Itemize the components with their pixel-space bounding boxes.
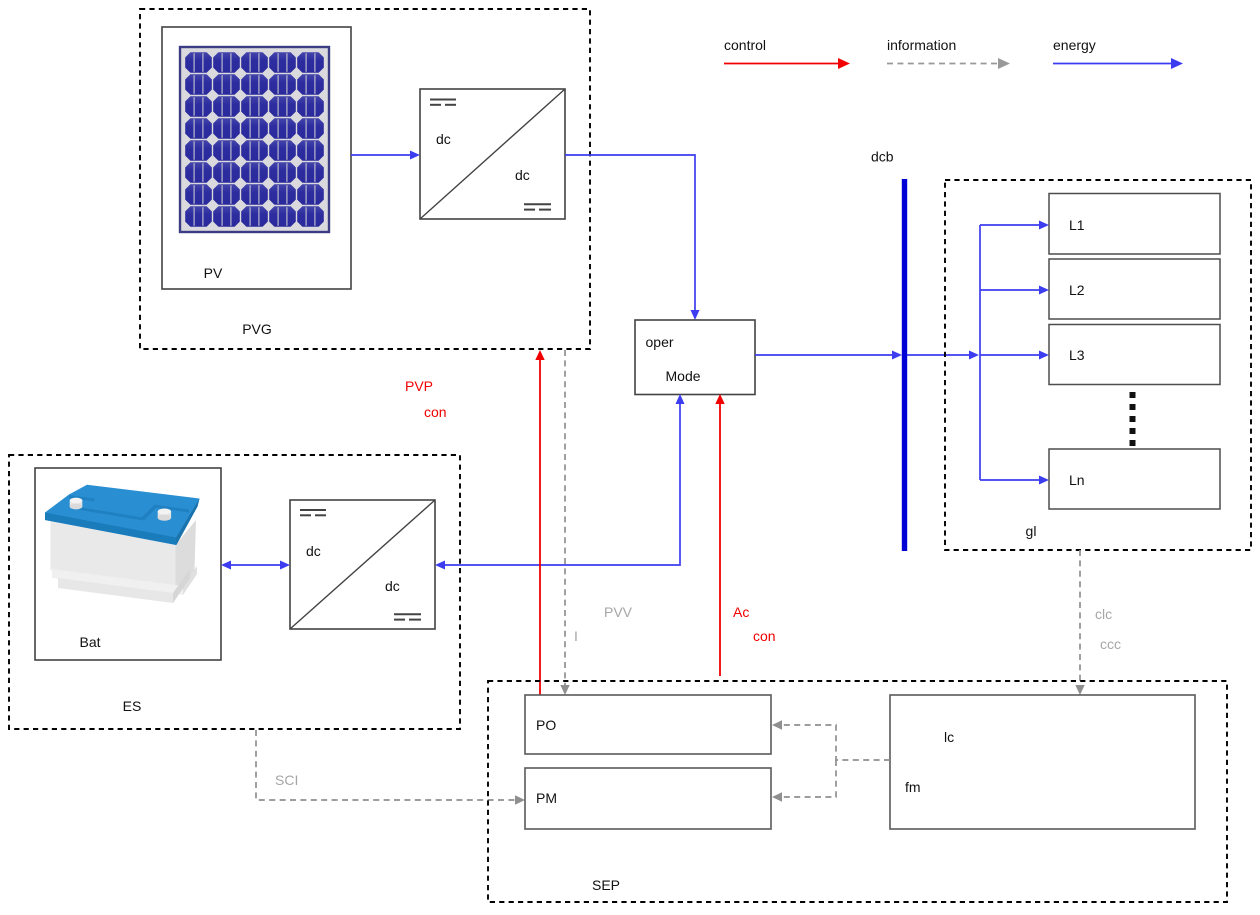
svg-text:Mode: Mode bbox=[666, 368, 701, 384]
svg-text:oper: oper bbox=[646, 334, 674, 350]
wire oper box to dcb bus (energy) bbox=[755, 354, 894, 356]
svg-text:dcb: dcb bbox=[871, 149, 894, 165]
wire branch to L2 (energy) bbox=[980, 289, 1041, 291]
battery terminal right bbox=[158, 512, 171, 518]
battery lid plateau step right bbox=[155, 505, 190, 513]
PV box bbox=[162, 27, 351, 289]
lc fm box bbox=[890, 695, 1195, 829]
svg-text:energy: energy bbox=[1053, 37, 1096, 53]
load L1 box bbox=[1049, 194, 1220, 255]
load L3 box bbox=[1049, 325, 1220, 385]
battery lid blue silhouette bbox=[45, 485, 200, 545]
battery lid left notch step bbox=[69, 495, 95, 502]
battery lid plateau step jog bbox=[142, 505, 158, 521]
solar panel PV image bbox=[180, 47, 329, 232]
svg-text:Bat: Bat bbox=[79, 634, 100, 650]
SEP dashed container bbox=[488, 681, 1227, 902]
wire oper box to U2 (energy) bbox=[443, 397, 680, 565]
battery base ledge right bbox=[183, 566, 197, 595]
control PVP con arrow (red) bbox=[539, 358, 541, 695]
battery lid front band bbox=[45, 513, 176, 546]
svg-text:PVV: PVV bbox=[604, 604, 633, 620]
svg-text:SEP: SEP bbox=[592, 877, 620, 893]
load L2 box bbox=[1049, 259, 1220, 319]
svg-text:con: con bbox=[753, 628, 776, 644]
svg-text:L3: L3 bbox=[1069, 347, 1085, 363]
U2 dc symbol top-left bbox=[300, 510, 326, 515]
svg-text:Ln: Ln bbox=[1069, 472, 1085, 488]
wire PV to U1 (energy) bbox=[351, 154, 412, 156]
svg-text:con: con bbox=[424, 404, 447, 420]
U1 dc symbol top-left bbox=[430, 100, 456, 105]
U1 dc symbol bottom-right bbox=[524, 204, 551, 209]
U2 dc symbol bottom-right bbox=[394, 614, 421, 619]
svg-text:L2: L2 bbox=[1069, 282, 1085, 298]
svg-text:ES: ES bbox=[123, 698, 142, 714]
svg-text:fm: fm bbox=[905, 779, 921, 795]
svg-text:control: control bbox=[724, 37, 766, 53]
svg-text:dc: dc bbox=[306, 543, 321, 559]
svg-text:PM: PM bbox=[536, 790, 557, 806]
oper Mode box bbox=[635, 320, 755, 395]
svg-text:PO: PO bbox=[536, 717, 556, 733]
information PVV I arrow (gray dashed) bbox=[564, 350, 566, 687]
battery Bat image bbox=[45, 485, 200, 603]
information clc ccc arrow (gray dashed) bbox=[1079, 550, 1081, 687]
ES dashed container bbox=[9, 455, 460, 729]
wire branch to L3 (energy) bbox=[980, 354, 1041, 356]
Bat box bbox=[35, 468, 221, 660]
battery terminal left bbox=[70, 501, 83, 507]
svg-text:dc: dc bbox=[436, 131, 451, 147]
wire branch to Ln (energy) bbox=[980, 479, 1041, 481]
battery base block front bbox=[58, 578, 173, 603]
battery lid right band bbox=[176, 499, 199, 546]
battery body front face bbox=[51, 519, 176, 592]
svg-text:PVG: PVG bbox=[242, 321, 272, 337]
svg-text:I: I bbox=[574, 628, 578, 644]
wire branch to L1 (energy) bbox=[980, 224, 1041, 226]
information SCI arrow (gray dashed) bbox=[256, 730, 517, 800]
converter U2 dc/dc box bbox=[290, 500, 435, 629]
gl dashed container bbox=[945, 180, 1251, 550]
svg-text:lc: lc bbox=[944, 729, 954, 745]
battery base block right bbox=[173, 569, 190, 603]
wire bus to load branch vertical (energy) bbox=[907, 354, 971, 356]
svg-text:dc: dc bbox=[385, 578, 400, 594]
load Ln box bbox=[1049, 449, 1220, 509]
dcb bus bar bbox=[902, 179, 907, 551]
PM box bbox=[525, 768, 771, 829]
converter U1 dc/dc box bbox=[420, 89, 565, 219]
battery base ledge front bbox=[52, 569, 183, 595]
information lc to PO/PM (gray dashed) bbox=[781, 725, 890, 760]
wire Bat to U2 bidirectional (energy) bbox=[228, 564, 283, 566]
svg-text:Ac: Ac bbox=[733, 604, 749, 620]
svg-text:information: information bbox=[887, 37, 956, 53]
battery body right face bbox=[176, 520, 197, 592]
svg-text:PV: PV bbox=[204, 265, 223, 281]
wire U1 to oper box (energy) bbox=[565, 155, 695, 312]
PO box bbox=[525, 695, 771, 754]
svg-text:clc: clc bbox=[1095, 606, 1112, 622]
ellipsis dots between L3 and Ln bbox=[1130, 392, 1136, 446]
control Ac con arrow (red) bbox=[719, 402, 721, 676]
PVG dashed container bbox=[140, 9, 590, 349]
battery lid plateau step front bbox=[80, 507, 144, 521]
svg-text:dc: dc bbox=[515, 167, 530, 183]
svg-text:gl: gl bbox=[1026, 523, 1037, 539]
svg-text:PVP: PVP bbox=[405, 378, 433, 394]
svg-text:ccc: ccc bbox=[1100, 636, 1121, 652]
svg-text:SCI: SCI bbox=[275, 772, 298, 788]
svg-text:L1: L1 bbox=[1069, 217, 1085, 233]
